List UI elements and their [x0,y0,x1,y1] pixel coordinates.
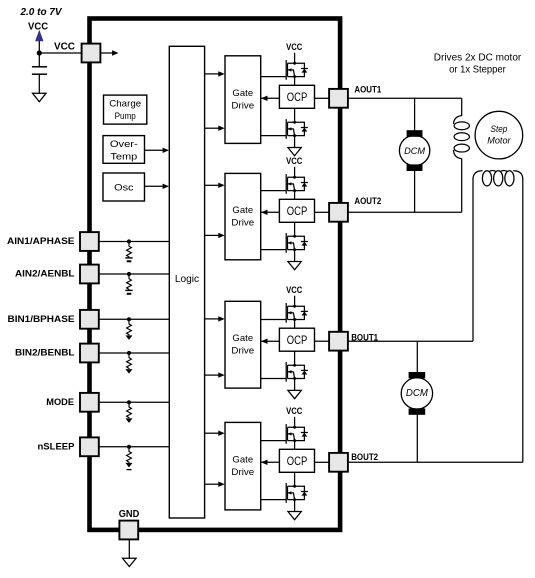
svg-text:Over-: Over- [110,139,138,150]
svg-text:VCC: VCC [54,42,75,53]
svg-text:AOUT2: AOUT2 [354,196,381,206]
svg-text:Drive: Drive [231,467,254,478]
svg-text:Pump: Pump [115,111,136,122]
svg-text:Gate: Gate [232,333,253,344]
svg-text:or 1x Stepper: or 1x Stepper [449,64,506,75]
svg-text:nSLEEP: nSLEEP [38,441,75,451]
svg-text:Gate: Gate [232,88,253,99]
svg-text:Gate: Gate [232,205,253,216]
svg-text:VCC: VCC [28,22,48,33]
svg-text:AOUT1: AOUT1 [354,85,381,95]
svg-text:Logic: Logic [175,274,199,285]
svg-text:Step: Step [491,124,508,134]
svg-text:BOUT2: BOUT2 [351,452,378,462]
svg-text:GND: GND [119,509,140,520]
svg-text:Gate: Gate [232,455,253,466]
svg-text:AIN2/AENBL: AIN2/AENBL [15,269,75,279]
svg-text:Drive: Drive [231,101,254,112]
svg-text:Temp: Temp [110,151,137,162]
svg-text:2.0 to 7V: 2.0 to 7V [20,7,63,18]
svg-text:AIN1/APHASE: AIN1/APHASE [7,236,75,246]
svg-text:Drives 2x DC motor: Drives 2x DC motor [434,52,522,63]
svg-text:Drive: Drive [231,346,254,357]
svg-text:DCM: DCM [404,146,425,157]
svg-text:BIN2/BENBL: BIN2/BENBL [15,348,75,358]
svg-text:Osc: Osc [114,183,134,194]
svg-text:Charge: Charge [109,98,141,109]
svg-text:MODE: MODE [46,397,74,407]
svg-text:DCM: DCM [406,388,429,399]
svg-text:BIN1/BPHASE: BIN1/BPHASE [8,314,75,324]
svg-text:Drive: Drive [231,218,254,229]
svg-text:Motor: Motor [487,136,511,146]
